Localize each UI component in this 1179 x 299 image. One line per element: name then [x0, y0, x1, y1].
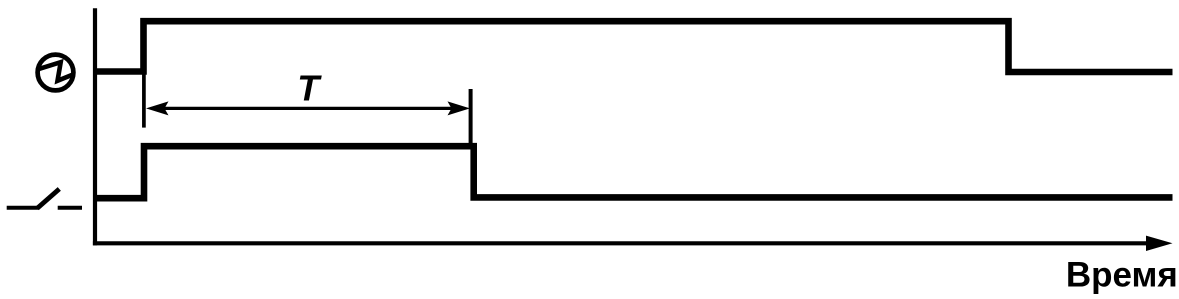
axis label Время — [1066, 256, 1178, 295]
label T — [297, 67, 322, 108]
extension line right — [469, 89, 473, 144]
svg-text:T: T — [297, 67, 322, 108]
extension line left — [142, 75, 146, 128]
vertical axis — [93, 8, 97, 245]
bottom signal trace (contact) — [93, 146, 1173, 198]
top signal trace (supply) — [93, 21, 1173, 72]
switch S1 — [7, 189, 82, 208]
generator symbol G1 — [38, 55, 75, 91]
dimension arrow T — [146, 101, 470, 115]
horizontal time axis — [93, 236, 1173, 251]
svg-text:Время: Время — [1066, 256, 1178, 295]
